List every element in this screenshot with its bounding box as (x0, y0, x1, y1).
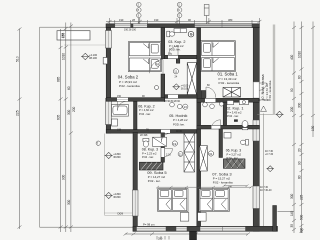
lower left wall window (132, 190, 138, 216)
top wall window Soba1 long (195, 24, 253, 28)
svg-text:300: 300 (67, 199, 71, 205)
svg-text:13: 13 (184, 105, 188, 109)
corridor band wall2 left (106, 130, 197, 134)
bottom dimension chain (124, 233, 251, 240)
upper block bottom wall mid seg (165, 95, 197, 99)
plot boundary top horizontal (40, 26, 107, 28)
label kup3 bath08 (142, 148, 158, 160)
sink bath06 (112, 119, 118, 126)
wardrobe X-box room07 (200, 146, 208, 172)
sink kup3 (224, 133, 231, 139)
svg-text:01. Soba 1: 01. Soba 1 (218, 72, 239, 77)
toilet bath03 (167, 31, 175, 37)
door gap right seg (205, 99, 216, 103)
svg-text:300: 300 (67, 109, 71, 115)
svg-text:380: 380 (228, 18, 233, 22)
svg-text:P.04 - ker.: P.04 - ker. (142, 155, 154, 159)
dimension lines left col2 group (59, 23, 73, 233)
circle tag 13 corridor (183, 104, 188, 109)
left wall upper block (106, 28, 111, 134)
svg-text:280: 280 (158, 237, 163, 240)
ladder column lower-left (184, 133, 195, 172)
bottom wall window room07 (200, 227, 246, 231)
svg-text:19: 19 (173, 142, 177, 146)
dim arrows room07 (223, 185, 249, 188)
left wall window upper (105, 31, 111, 49)
washer kup1 (239, 100, 248, 105)
door bath03 (168, 46, 178, 56)
svg-text:+0 7.30: +0 7.30 (265, 153, 274, 156)
top wall solid band (106, 24, 259, 28)
svg-text:60: 60 (67, 86, 71, 90)
door terrace (259, 83, 266, 90)
door gap mid seg (168, 95, 178, 98)
nightstand left of party wall (180, 213, 189, 222)
svg-text:10: 10 (156, 62, 160, 66)
terrace SE corner wall vertical (273, 206, 277, 232)
bed Soba1 (201, 41, 236, 72)
svg-text:100: 100 (300, 227, 304, 233)
label soba5 (147, 170, 167, 183)
svg-text:225: 225 (16, 110, 20, 116)
party wall vertical center (197, 28, 201, 232)
svg-text:900: 900 (62, 174, 66, 180)
svg-text:40 7.30-40: 40 7.30-40 (260, 189, 272, 192)
svg-text:P.02 - keramika: P.02 - keramika (213, 181, 233, 185)
svg-text:1010: 1010 (62, 53, 66, 60)
svg-text:885: 885 (56, 76, 60, 82)
upper block bottom wall left seg (106, 98, 165, 102)
terrace door triangle mark (261, 106, 267, 112)
floor drain kup1 (234, 119, 238, 121)
wall Soba2 right lower segment (161, 74, 165, 101)
label hodnik (169, 114, 188, 127)
svg-text:P = 4,28 m2: P = 4,28 m2 (173, 118, 188, 122)
plot boundary left vertical (39, 27, 41, 227)
svg-text:05. Hodnik: 05. Hodnik (169, 114, 187, 118)
svg-text:155: 155 (62, 32, 66, 38)
svg-text:198: 198 (117, 129, 122, 132)
svg-text:190: 190 (154, 18, 159, 22)
circle tag 01 (208, 151, 213, 156)
label kup2 (168, 40, 185, 55)
level diamond terrace right (275, 111, 283, 117)
bed Soba2 (128, 42, 161, 72)
door room09 (161, 133, 170, 142)
bottom wall lower block (133, 226, 278, 231)
svg-text:P= 98 cm: P= 98 cm (143, 222, 155, 226)
label terrace vertical (261, 74, 272, 101)
svg-text:P.02 - ker.: P.02 - ker. (148, 179, 161, 183)
toilet bath08 (143, 139, 149, 148)
dim row above lower beds (156, 186, 253, 189)
boiler G circle bath03 (188, 31, 194, 37)
shower hatch box kup3 (223, 159, 245, 168)
top wall window Soba2 b (133, 24, 147, 28)
left wall window lower (105, 99, 111, 125)
svg-text:90: 90 (298, 161, 302, 165)
svg-text:04. Soba 2: 04. Soba 2 (118, 75, 139, 80)
svg-text:P.02 - keramika: P.02 - keramika (119, 84, 140, 88)
right wall upper block (253, 28, 259, 232)
svg-text:60: 60 (298, 75, 302, 79)
top dim numbers (119, 18, 233, 22)
bottom wall window small (176, 227, 187, 231)
bed room07 (199, 189, 229, 212)
svg-text:11: 11 (179, 152, 182, 156)
svg-text:G: G (190, 33, 193, 37)
svg-text:01: 01 (209, 152, 213, 156)
bed room09 (158, 189, 188, 212)
svg-text:P = 3,27 m2: P = 3,27 m2 (227, 152, 242, 156)
shaft hatch box bath08 (139, 162, 163, 170)
svg-text:P.04 - ker.: P.04 - ker. (227, 156, 239, 160)
svg-text:POD: ker.: POD: ker. (173, 122, 185, 126)
terrace railing right (257, 25, 275, 227)
toilet kup1 (242, 121, 248, 130)
wardrobe X-box Soba1 (223, 88, 241, 98)
svg-text:02. Kup. 1: 02. Kup. 1 (226, 107, 243, 111)
door soba1 (206, 87, 216, 98)
dim texts left col2 (56, 32, 76, 205)
svg-text:90: 90 (290, 88, 294, 92)
svg-text:P.01 - keramika: P.01 - keramika (268, 80, 272, 100)
svg-text:20: 20 (298, 148, 302, 152)
circle tag soba2 hall (155, 61, 160, 66)
svg-text:90 80: 90 80 (176, 130, 183, 133)
svg-text:P.02 - keramika: P.02 - keramika (219, 81, 240, 85)
bath03 door gap (168, 56, 178, 59)
svg-text:500: 500 (300, 214, 304, 220)
window tag stack B (177, 2, 182, 24)
right wall window lower (253, 186, 260, 209)
corridor band wall2 right (197, 125, 259, 129)
label soba2 (118, 75, 140, 88)
tub bath06 left (112, 105, 129, 117)
svg-text:80: 80 (298, 175, 302, 179)
dim hline right terrace (278, 211, 295, 213)
level diamond stair (172, 84, 180, 90)
svg-text:2.10: 2.10 (166, 154, 171, 157)
shutter box outside left wall (103, 58, 107, 65)
washer bath03 (174, 29, 187, 33)
svg-text:POD: ker.: POD: ker. (169, 48, 181, 52)
svg-text:35: 35 (290, 224, 294, 228)
bottom wall window room09 (137, 227, 167, 231)
label kup1 (226, 107, 243, 119)
planter box top-left (57, 31, 90, 40)
circle tag small soba2 (155, 86, 159, 90)
svg-text:08. Kup. 3: 08. Kup. 3 (142, 148, 158, 152)
level diamond lower-left b (105, 192, 113, 198)
circle tag 19 (172, 141, 177, 146)
svg-text:P = 4,60 m2: P = 4,60 m2 (139, 108, 154, 112)
svg-text:36.800: 36.800 (113, 196, 121, 199)
svg-text:P = 2,23 m2: P = 2,23 m2 (142, 151, 157, 155)
svg-text:03. Kup. 2: 03. Kup. 2 (168, 40, 185, 44)
wall corner post soba1 door (201, 91, 206, 99)
bath08 right wall (161, 133, 165, 162)
wall corridor / kup1 (223, 102, 226, 125)
svg-text:300: 300 (290, 193, 294, 199)
top wall window Soba2 a (115, 24, 131, 28)
wall bath06 right (134, 101, 138, 129)
svg-text:1010: 1010 (298, 51, 302, 58)
svg-text:400: 400 (290, 54, 294, 60)
svg-text:06. Kup. 2: 06. Kup. 2 (138, 105, 154, 109)
svg-text:225: 225 (300, 194, 304, 200)
terrace edge lower-left vertical (103, 134, 105, 216)
bath08 door gap (161, 148, 164, 157)
door gaps wall2 (161, 130, 170, 133)
svg-text:605: 605 (56, 114, 60, 120)
level diamond lower-left a (105, 152, 113, 158)
lower block left wall (133, 132, 137, 231)
terrace edge line y45 (64, 44, 107, 46)
svg-text:510: 510 (16, 56, 20, 62)
dimension line left col1 (18, 28, 22, 230)
label soba3 (212, 171, 233, 184)
top dimension chain (106, 18, 261, 24)
svg-text:11: 11 (174, 70, 177, 74)
svg-text:P.04 - ker.: P.04 - ker. (139, 112, 151, 116)
door bath08 (165, 149, 173, 157)
party wall stub below bottom wall (190, 231, 197, 240)
svg-text:28 198: 28 198 (140, 134, 148, 137)
circle tags corridor row (170, 102, 224, 109)
upper block bottom wall right seg (197, 98, 259, 102)
right dimension lines (292, 22, 315, 234)
nightstand right of party wall (198, 213, 207, 222)
svg-text:190 28 190: 190 28 190 (124, 28, 137, 31)
door bath06 (118, 101, 127, 110)
terrace step lines lower-left (104, 212, 133, 214)
svg-text:200: 200 (290, 106, 294, 112)
circle tag outside left wall (96, 141, 100, 145)
svg-text:38.100: 38.100 (89, 56, 97, 60)
bath03 bottom wall (165, 55, 197, 58)
toilet kup3 lower (240, 140, 248, 146)
svg-text:28 90 80 28 90: 28 90 80 28 90 (164, 100, 181, 103)
door gap left seg (117, 98, 128, 101)
label soba1 (218, 72, 240, 85)
shower bath08 (153, 137, 167, 146)
wall stub hall (176, 59, 180, 64)
label kup bath06 left (138, 105, 154, 116)
svg-text:38.100: 38.100 (181, 87, 189, 90)
svg-text:150: 150 (117, 95, 122, 98)
svg-text:36.800: 36.800 (113, 156, 121, 159)
window tag box C (204, 5, 209, 24)
svg-text:D09: D09 (118, 212, 124, 216)
level diamond terrace right b (266, 166, 274, 172)
sink kup1 (227, 101, 234, 105)
svg-text:P = 3,43 m2: P = 3,43 m2 (227, 110, 242, 114)
svg-text:130: 130 (311, 125, 315, 131)
dim numbers above left bottom wall (117, 95, 145, 98)
window tag stack A (137, 2, 142, 24)
svg-text:300: 300 (298, 102, 302, 108)
svg-text:190: 190 (119, 18, 124, 22)
stair void X-box upper (187, 63, 196, 95)
svg-text:06. Kup. 3: 06. Kup. 3 (226, 149, 242, 153)
right wall terrace door opening (253, 82, 259, 98)
circle tag 11 upper (173, 69, 178, 74)
plot boundary bottom horizontal (40, 226, 134, 228)
svg-text:40 7.30 40: 40 7.30 40 (258, 99, 270, 102)
right dim numbers (290, 51, 315, 233)
kup3 left wall (right apt) (219, 129, 223, 158)
svg-text:200: 200 (72, 106, 76, 112)
level marker diamond top-left (81, 53, 90, 60)
svg-text:P.04 - ker.: P.04 - ker. (227, 114, 239, 118)
right wall window mid (253, 120, 260, 141)
label kup3 right (226, 149, 242, 160)
wall Soba2 / bath03 (161, 28, 165, 59)
door room07 (211, 120, 220, 129)
circle tag 11b (178, 152, 183, 157)
door soba2 (150, 60, 164, 74)
